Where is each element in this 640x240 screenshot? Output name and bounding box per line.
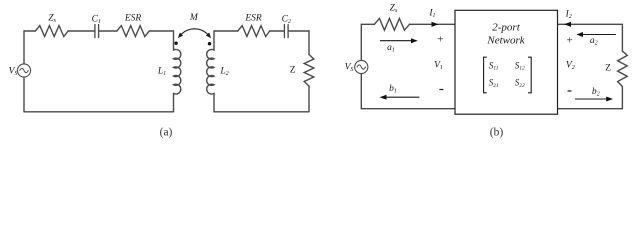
svg-text:Z: Z — [290, 66, 296, 76]
2-port network box — [455, 10, 558, 114]
svg-text:M: M — [189, 13, 199, 23]
wire C1 to ESR — [99, 30, 117, 32]
wire top loop2 segment — [214, 30, 238, 32]
svg-text:(b): (b) — [490, 127, 504, 139]
inductor L1 — [174, 31, 181, 112]
wire top-left segment (b) — [361, 23, 374, 25]
wave b2 arrow — [575, 97, 613, 102]
wire bottom left (b) — [361, 108, 455, 110]
resistor Zs (b) — [374, 18, 409, 30]
svg-text:V1: V1 — [434, 60, 443, 70]
svg-text:+: + — [437, 34, 443, 46]
wire left vertical (b) — [360, 24, 362, 108]
wire ESR to L1 — [149, 30, 173, 32]
resistor Z load (a) — [304, 55, 314, 87]
wire Z to bottom right (b) — [621, 87, 623, 109]
capacitor C1 — [95, 25, 99, 38]
wire left vertical loop1 (a) — [23, 31, 25, 112]
svg-text:b2: b2 — [592, 87, 600, 97]
svg-text:ESR: ESR — [244, 14, 262, 24]
voltage source Vs (a) — [17, 64, 30, 77]
svg-text:a1: a1 — [387, 43, 395, 53]
wire bottom loop1 (a) — [24, 111, 174, 113]
wave a2 arrow — [576, 32, 616, 37]
current I1 arrow — [432, 22, 439, 27]
svg-text:Zs: Zs — [48, 13, 56, 23]
svg-text:(a): (a) — [160, 127, 173, 139]
wire Zs to 2-port box — [410, 23, 456, 25]
wire C2 to right corner loop2 — [288, 31, 309, 55]
svg-text:ESR: ESR — [124, 14, 142, 24]
svg-text:a2: a2 — [590, 36, 598, 46]
resistor Zs (a) — [35, 26, 68, 37]
current I2 arrow — [564, 22, 571, 27]
inductor L2 — [207, 31, 214, 112]
wire bottom loop2 (a) — [214, 111, 309, 113]
S-parameter matrix brackets — [484, 57, 532, 93]
polarity dot L2 — [208, 42, 211, 45]
svg-text:Z: Z — [605, 64, 611, 74]
svg-text:b1: b1 — [389, 84, 397, 94]
label minus V2 — [568, 90, 572, 92]
wire bottom right (b) — [558, 108, 623, 110]
wire Z to bottom loop2 — [308, 86, 310, 112]
mutual inductance M arrow — [178, 29, 211, 38]
voltage source Vs (b) — [355, 60, 368, 73]
svg-text:VS: VS — [345, 63, 354, 73]
svg-text:V2: V2 — [566, 60, 575, 70]
polarity dot L1 — [174, 42, 177, 45]
svg-text:I1: I1 — [428, 8, 435, 18]
wire top-left segment (a) — [24, 30, 35, 32]
resistor Z load (b) — [618, 51, 628, 87]
wire ESR to C2 — [270, 30, 285, 32]
resistor ESR (secondary) — [238, 26, 270, 37]
wire box to right corner top (b) — [558, 24, 623, 51]
svg-text:VS: VS — [9, 67, 18, 77]
svg-text:L1: L1 — [157, 67, 166, 77]
label minus V1 — [439, 89, 443, 91]
svg-text:Network: Network — [486, 34, 525, 46]
wave a1 arrow — [380, 38, 418, 43]
svg-text:+: + — [567, 35, 573, 47]
svg-text:Zs: Zs — [390, 4, 398, 14]
svg-text:I2: I2 — [565, 10, 572, 20]
resistor ESR (primary) — [117, 26, 149, 37]
capacitor C2 — [284, 25, 288, 38]
wire Zs to C1 — [68, 30, 95, 32]
svg-text:C2: C2 — [282, 14, 291, 24]
wave b1 arrow — [380, 95, 420, 100]
svg-text:2-port: 2-port — [492, 21, 520, 33]
svg-text:L2: L2 — [219, 67, 228, 77]
svg-text:C1: C1 — [92, 14, 101, 24]
